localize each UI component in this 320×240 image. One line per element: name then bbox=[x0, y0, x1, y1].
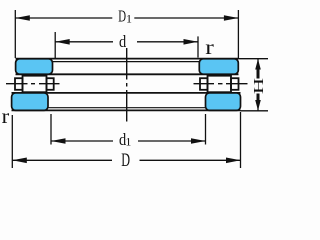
svg-text:d: d bbox=[119, 32, 127, 51]
svg-text:D: D bbox=[121, 150, 130, 171]
svg-text:1: 1 bbox=[125, 134, 131, 148]
svg-text:D: D bbox=[118, 6, 126, 25]
svg-text:r: r bbox=[2, 106, 10, 128]
svg-text:1: 1 bbox=[126, 11, 132, 25]
svg-text:H: H bbox=[251, 78, 267, 94]
svg-text:r: r bbox=[205, 37, 214, 59]
